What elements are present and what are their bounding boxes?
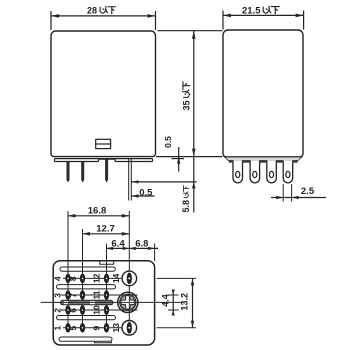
dimension 21.5以下 label — [242, 6, 261, 17]
pin eye 3 — [66, 291, 70, 299]
dimension 4.4 label (rotated) — [160, 294, 170, 307]
svg-text:28: 28 — [87, 6, 97, 16]
side view body — [223, 30, 303, 157]
extension line column 3 — [106, 244, 108, 332]
side base webs between blades — [229, 160, 298, 163]
slot C — [57, 316, 116, 320]
dimension 6.4 / 6.8 line — [107, 247, 159, 250]
row line 1 — [63, 277, 137, 279]
svg-text:12.7: 12.7 — [96, 224, 115, 235]
svg-text:35: 35 — [181, 100, 191, 110]
row 4 extension right — [157, 327, 196, 329]
svg-text:3: 3 — [53, 293, 63, 298]
pin 13 circle — [122, 321, 137, 336]
pin number 1 — [53, 326, 63, 331]
dimension 6.8 label — [135, 238, 148, 249]
pin eye 4 — [66, 274, 70, 282]
extension line column 2 — [82, 229, 84, 332]
front view bottom lip — [55, 159, 153, 162]
dimension 28以下 label — [87, 6, 97, 16]
svg-text:1: 1 — [53, 326, 63, 331]
dimension 12.7 line — [83, 232, 130, 236]
svg-text:4.4: 4.4 — [160, 294, 170, 307]
pin eye 6 — [80, 306, 84, 314]
extension line column 4 — [128, 211, 130, 334]
row 1 extension right — [157, 277, 196, 279]
side blade 4 — [283, 161, 293, 183]
extension line body bottom between views — [156, 156, 223, 158]
svg-text:12: 12 — [92, 273, 102, 283]
pin number 2 — [53, 308, 63, 313]
dimension 5.8以下 label (rotated) — [181, 186, 191, 213]
dimension 0.5 pin thickness label — [139, 188, 153, 199]
dimension 6.4 label — [111, 238, 125, 249]
pin number 11 — [92, 290, 102, 299]
front pin 4 long — [129, 159, 132, 201]
side blade 3 — [267, 161, 277, 183]
dimension 4.4 line — [172, 290, 175, 316]
pin number 7 — [68, 293, 78, 298]
pin number 10 — [92, 305, 102, 315]
dimension 0.5 step line — [172, 147, 185, 172]
row 2 tick right — [168, 294, 179, 296]
svg-text:5: 5 — [68, 326, 78, 331]
svg-text:9: 9 — [92, 326, 102, 331]
front pin 1 — [67, 162, 70, 183]
pin eye 11 — [104, 291, 108, 299]
side blade 2 — [250, 161, 260, 183]
dimension 2.5 line — [271, 196, 326, 199]
svg-text:2.5: 2.5 — [301, 186, 315, 197]
front pin 3 — [105, 159, 108, 182]
row line 4 — [63, 327, 137, 329]
pin number 3 — [53, 293, 63, 298]
svg-text:4: 4 — [53, 276, 63, 281]
pin number 12 — [92, 273, 102, 283]
dimension 35以下 label (rotated) — [181, 82, 191, 111]
centerline — [41, 301, 183, 303]
bottom view body — [53, 261, 154, 345]
pin eye 9 — [104, 324, 108, 332]
svg-text:10: 10 — [92, 305, 102, 315]
dimension 0.5 pin thickness leaders — [131, 180, 155, 198]
side blade 1 — [233, 161, 243, 183]
svg-text:8: 8 — [68, 276, 78, 281]
row line 2 — [61, 294, 138, 296]
pin eye 1 — [66, 324, 70, 332]
extension line top between views — [158, 30, 223, 32]
dimension 13.2 label (rotated) — [180, 293, 190, 311]
svg-text:6: 6 — [68, 308, 78, 313]
pin eye 2 — [66, 306, 70, 314]
svg-text:5.8: 5.8 — [181, 200, 191, 213]
svg-text:11: 11 — [92, 290, 102, 299]
dimension 13.2 line — [191, 278, 194, 327]
svg-text:6.8: 6.8 — [135, 238, 148, 249]
pin 14 circle — [122, 271, 137, 286]
slot B — [57, 285, 116, 289]
pin number 14 — [111, 273, 121, 283]
dimension 2.5 label — [301, 186, 315, 197]
dimension 35以下 / 5.8以下 vertical line — [192, 31, 196, 213]
dimension 16.8 line — [68, 214, 129, 218]
svg-text:14: 14 — [111, 273, 121, 283]
pin number 6 — [68, 308, 78, 313]
extension line pin tip level — [131, 181, 197, 183]
slot gray — [61, 300, 114, 305]
center boss circle — [118, 292, 139, 312]
side view base strip — [225, 157, 302, 161]
pin number 5 — [68, 326, 78, 331]
dimension 28以下 line — [51, 11, 156, 30]
bottom view top tab — [100, 261, 114, 265]
svg-text:0.5: 0.5 — [139, 188, 153, 199]
pin eye 12 — [104, 274, 108, 282]
pin number 4 — [53, 276, 63, 281]
svg-text:13: 13 — [111, 323, 121, 333]
row 3 tick right — [168, 309, 179, 311]
svg-text:0.5: 0.5 — [163, 136, 173, 148]
slot D — [59, 337, 112, 341]
pin number 9 — [92, 326, 102, 331]
pin eye 7 — [80, 291, 84, 299]
dimension 0.5 step label (rotated) — [163, 136, 173, 148]
slot A — [60, 267, 115, 271]
front pin 2 — [81, 162, 84, 183]
row line 3 — [61, 309, 138, 311]
front view body — [51, 31, 156, 157]
pin eye 10 — [104, 306, 108, 314]
dimension 21.5以下 line — [223, 11, 304, 30]
svg-text:2: 2 — [53, 308, 63, 313]
extension line column 1 — [67, 211, 69, 332]
svg-text:13.2: 13.2 — [180, 293, 190, 311]
pin number 13 — [111, 323, 121, 333]
pin number 8 — [68, 276, 78, 281]
svg-text:7: 7 — [68, 293, 78, 298]
front view latch detail — [96, 139, 111, 148]
extension line body right edge — [154, 244, 156, 262]
dimension 12.7 label — [96, 224, 115, 235]
dimension 2.5 extension lines — [283, 184, 291, 202]
pin eye 5 — [80, 324, 84, 332]
svg-text:16.8: 16.8 — [88, 206, 107, 217]
dimension 16.8 label — [88, 206, 107, 217]
pin eye 8 — [80, 274, 84, 282]
